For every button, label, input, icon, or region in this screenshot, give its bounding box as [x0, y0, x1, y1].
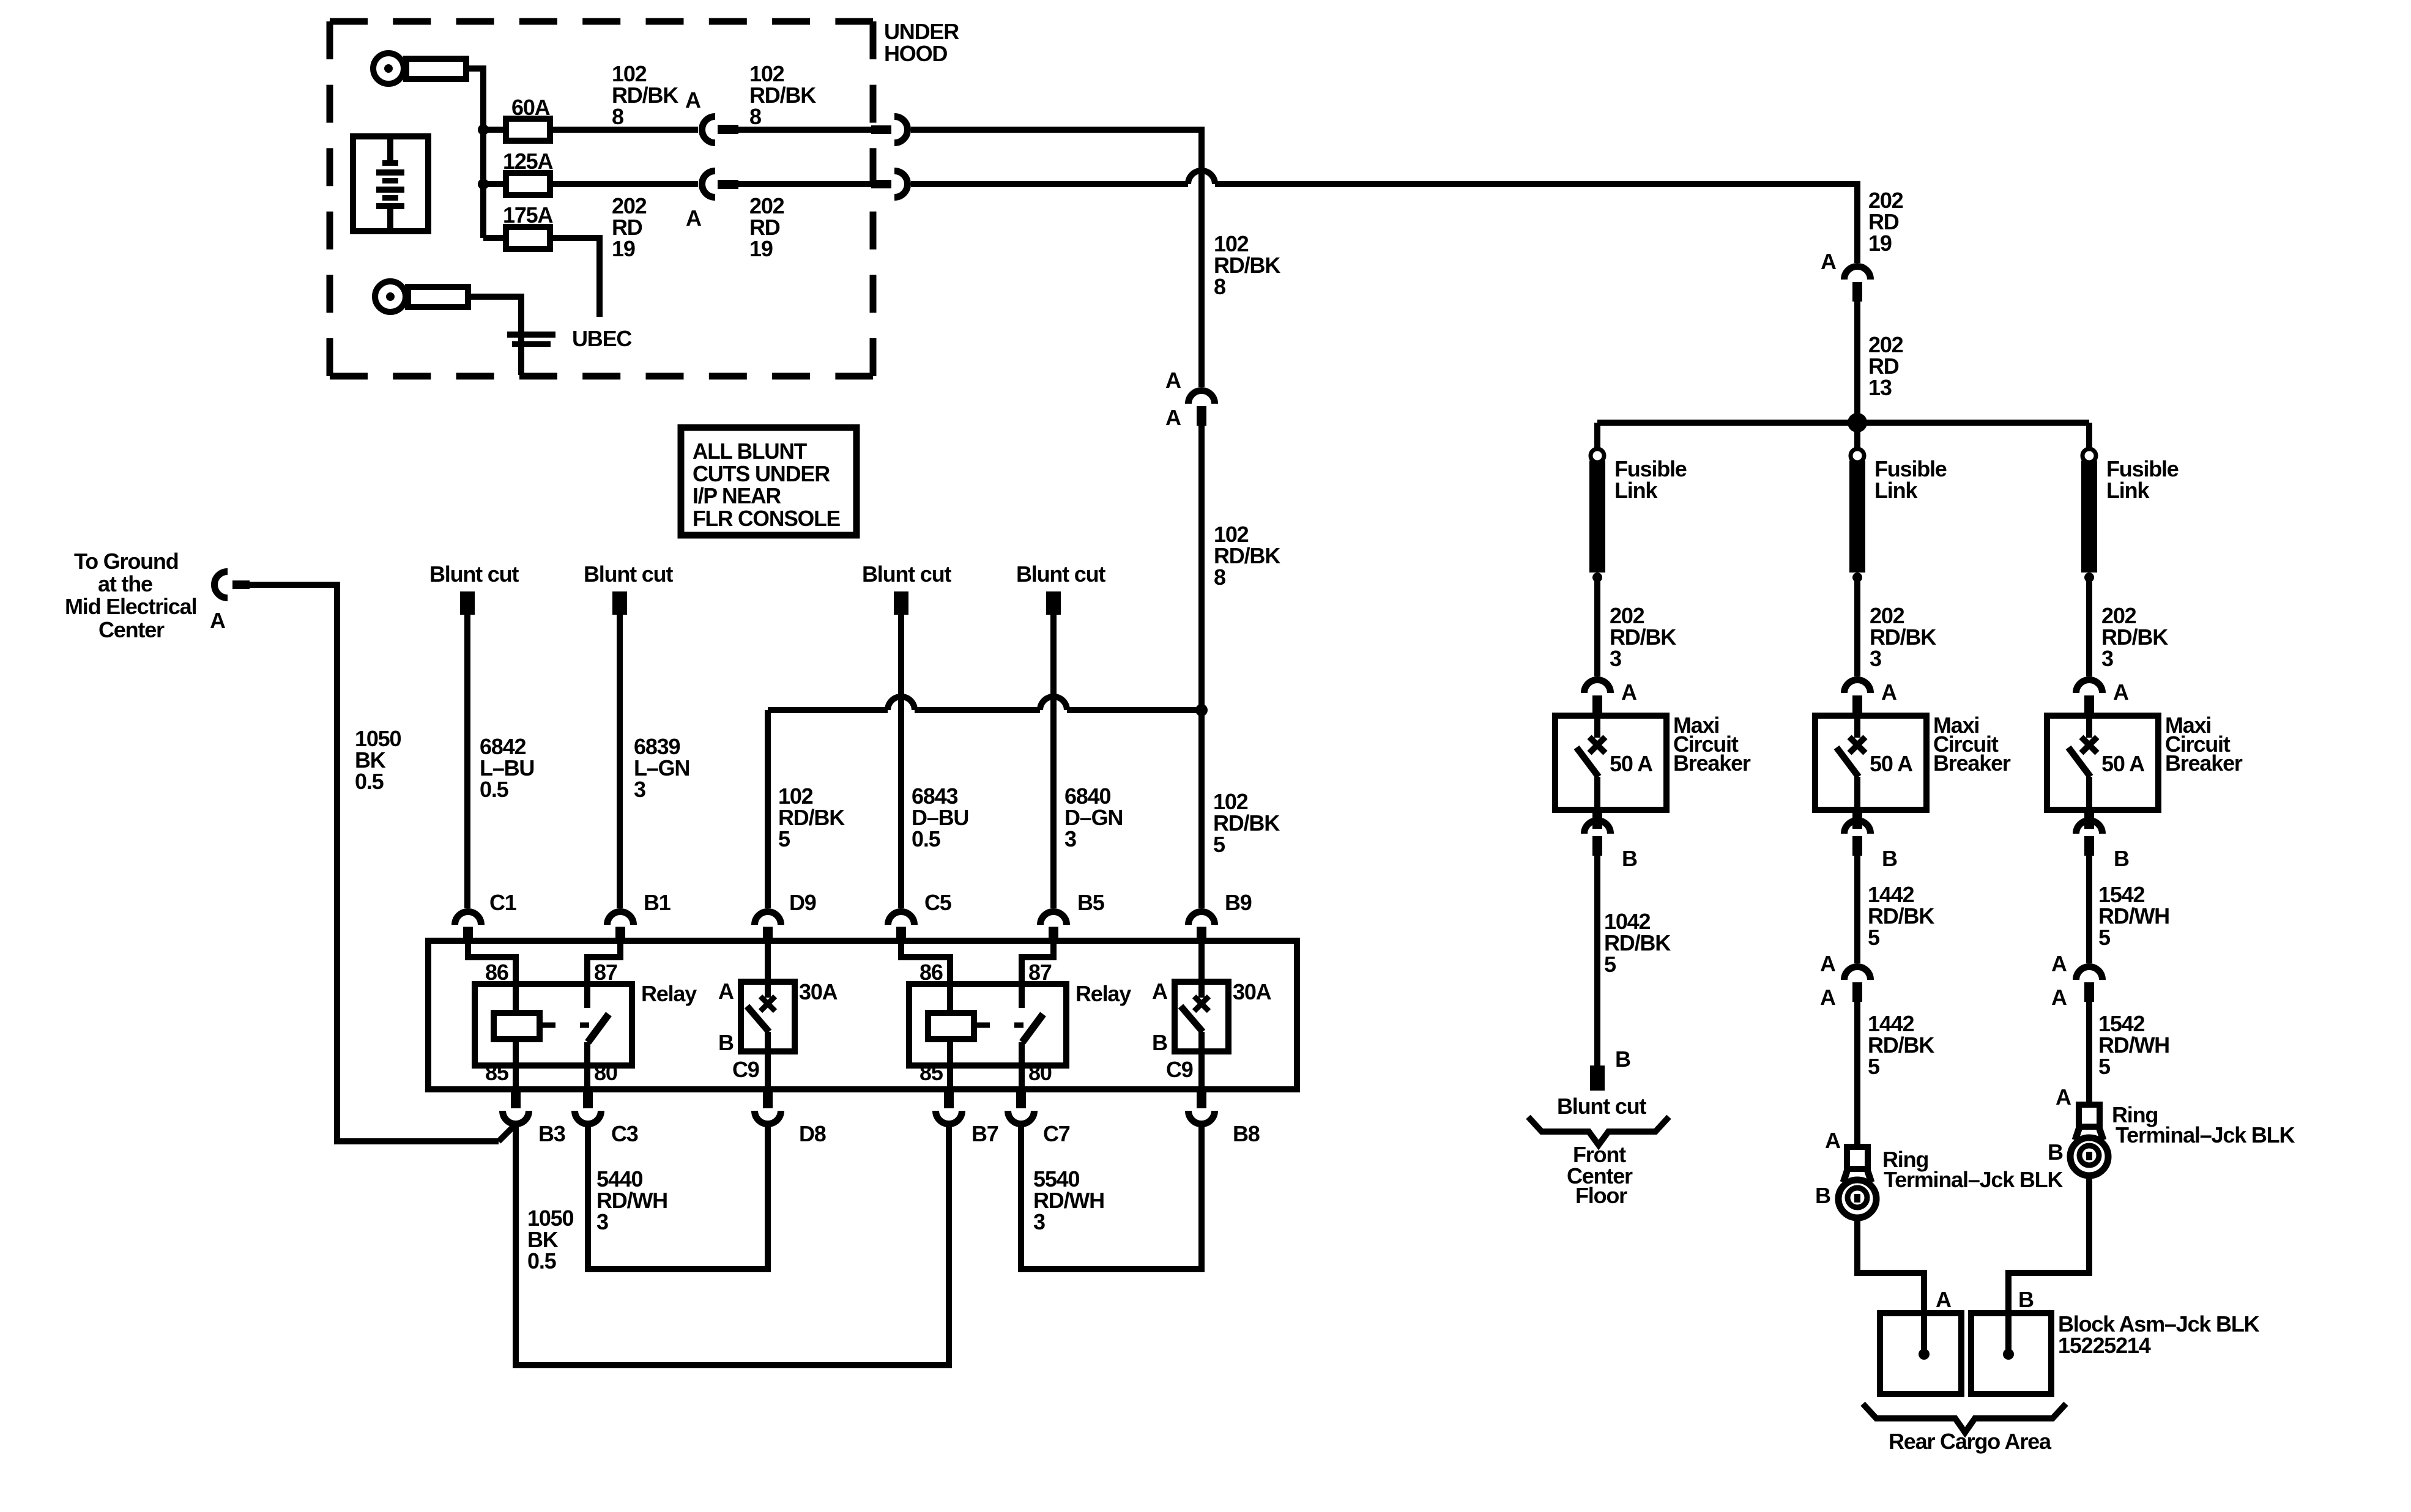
svg-text:50 A: 50 A [1610, 751, 1653, 776]
maxi circuit breaker MCB3 stub [2086, 716, 2092, 738]
wire ground to B3 [250, 585, 499, 1141]
svg-text:87: 87 [594, 960, 617, 985]
connector male pin below breaker 1 B [1592, 836, 1602, 856]
svg-text:Link: Link [1874, 478, 1918, 503]
battery [353, 136, 428, 231]
underhood electrical center dashed box UBEC [330, 18, 873, 25]
note box ALL BLUNT CUTS [681, 428, 856, 535]
connector male pin vertical 102 [1197, 406, 1206, 426]
wire distribution bus [1597, 420, 2089, 426]
connector female B9 [1189, 912, 1215, 925]
maxi circuit breaker MCB2 X symbol [1849, 737, 1865, 753]
svg-text:Rear Cargo Area: Rear Cargo Area [1889, 1429, 2052, 1454]
circuit breaker CB2 30A box [1175, 982, 1228, 1051]
connector female B8 [1189, 1111, 1215, 1124]
svg-text:19: 19 [749, 236, 773, 261]
connector male pin maxi breaker 1 A [1592, 695, 1602, 716]
ring terminal battery negative [375, 281, 406, 312]
wire 1042 RD/BK 5 [1594, 856, 1600, 1065]
svg-text:A: A [1165, 405, 1181, 430]
wire ring terminal negative to ground splice [468, 297, 521, 375]
connector male pin ground [232, 580, 250, 589]
svg-text:A: A [685, 87, 701, 113]
circuit breaker CB1 stub [765, 982, 771, 998]
relay K2 coil wire 86 [901, 941, 950, 1013]
connector male pin maxi breaker 2 A [1852, 695, 1862, 716]
relay K1 coil bottom wire 85 [513, 1039, 519, 1089]
svg-text:8: 8 [1214, 565, 1225, 590]
connector female C7 [1008, 1111, 1035, 1124]
svg-text:3: 3 [1064, 826, 1076, 851]
svg-text:15225214: 15225214 [2058, 1333, 2151, 1358]
svg-text:A: A [1152, 979, 1168, 1004]
connector male pin below breaker 3 B [2084, 836, 2094, 856]
relay K1 switch bottom wire [584, 1042, 590, 1089]
wire ring terminal to block A [1857, 1219, 1924, 1352]
connector male pin wire1 boundary [871, 125, 891, 134]
svg-text:A: A [2051, 985, 2067, 1010]
fuse 125A [506, 173, 550, 195]
connector male pin B7 [944, 1089, 954, 1108]
wire 1442 RD/BK 5 upper [1854, 856, 1860, 963]
svg-text:A: A [2113, 680, 2129, 705]
connector female C5 [888, 912, 915, 925]
svg-text:5: 5 [1868, 925, 1880, 950]
svg-text:Blunt cut: Blunt cut [1016, 561, 1105, 587]
wire 102 RD/BK 8 to junction [1198, 426, 1205, 710]
relay K2 switch wire 87 [1022, 941, 1053, 1008]
connector female vertical 102 [1189, 391, 1215, 404]
svg-text:B: B [1615, 1047, 1630, 1072]
svg-text:86: 86 [485, 960, 508, 985]
svg-text:86: 86 [919, 960, 943, 985]
connector male pin B8 [1197, 1089, 1206, 1108]
relay K1 box [475, 984, 632, 1065]
svg-text:Terminal–Jck BLK: Terminal–Jck BLK [1884, 1167, 2063, 1192]
svg-text:Blunt cut: Blunt cut [1557, 1094, 1646, 1119]
wire 6840 D-GN [1050, 615, 1057, 908]
svg-text:Link: Link [1614, 478, 1658, 503]
relay K2 coil linkage dashes [974, 1023, 990, 1028]
maxi circuit breaker MCB2 bottom wire [1854, 777, 1860, 810]
relay K1 switch wire 87 [587, 941, 620, 1008]
svg-text:3: 3 [1870, 646, 1881, 671]
relay K2 switch lever [1022, 1014, 1043, 1042]
wire bus corner to 175A fuse [483, 235, 506, 241]
relay K2 box [909, 984, 1066, 1065]
svg-text:B8: B8 [1233, 1121, 1260, 1146]
svg-text:A: A [2051, 951, 2067, 976]
wire 202 RD 13 [1854, 302, 1860, 423]
brace front center floor [1528, 1117, 1669, 1145]
maxi circuit breaker MCB3 lever [2068, 747, 2090, 777]
connector male pin maxi breaker 3 B [2084, 810, 2094, 829]
svg-text:B: B [2114, 846, 2129, 871]
fusible link FL3 [2082, 449, 2096, 462]
svg-text:ALL BLUNT: ALL BLUNT [693, 439, 807, 464]
wire wire1 to underhood boundary [738, 127, 871, 133]
fuse 175A [506, 227, 550, 249]
svg-text:Mid Electrical: Mid Electrical [65, 594, 196, 619]
connector male pin maxi breaker 2 B [1852, 810, 1862, 829]
svg-text:3: 3 [1033, 1209, 1045, 1234]
ring terminal battery positive [373, 53, 404, 84]
svg-text:B: B [718, 1030, 734, 1055]
svg-text:B5: B5 [1077, 890, 1105, 915]
svg-text:5: 5 [1213, 832, 1225, 857]
connector female maxi breaker 3 B [2076, 821, 2103, 834]
svg-text:30A: 30A [1233, 979, 1272, 1004]
svg-text:0.5: 0.5 [480, 777, 509, 802]
junction dot node 102 [1195, 704, 1208, 716]
connector male pin B3 [511, 1089, 521, 1108]
junction dot bus [1848, 413, 1867, 432]
connector male pin wire1 inline [718, 125, 738, 134]
junction block A [1880, 1313, 1961, 1394]
wire 5440 RD/WH C3 to D8 [588, 1124, 768, 1269]
svg-text:A: A [1820, 951, 1836, 976]
svg-text:8: 8 [749, 104, 761, 129]
svg-text:C1: C1 [489, 890, 517, 915]
svg-text:D9: D9 [789, 890, 816, 915]
circuit breaker CB2 X symbol [1194, 996, 1209, 1011]
connector female ground [215, 572, 228, 598]
wire ring terminal to fuse bus [466, 69, 483, 238]
svg-text:A: A [1821, 249, 1837, 274]
wire 175A fuse stub to UBEC [550, 238, 600, 317]
svg-text:UNDER: UNDER [884, 19, 959, 44]
wire B9 to breaker CB2 [1198, 941, 1205, 982]
maxi circuit breaker MCB3 X symbol [2081, 737, 2097, 753]
junction dot 60A tap [478, 124, 489, 135]
connector male pin C3 [583, 1089, 593, 1108]
connector male pin B9 [1197, 927, 1206, 941]
connector male pin B5 [1049, 927, 1058, 941]
connector female wire2 boundary [894, 171, 908, 198]
blunt cut terminal front floor [1590, 1065, 1605, 1091]
wire 1050 BK B3 to B7 [516, 1124, 949, 1365]
wire bus to fusible link 1 [1594, 423, 1600, 450]
maxi circuit breaker MCB1 box [1555, 716, 1666, 810]
svg-text:A: A [1820, 985, 1836, 1010]
blunt cut terminal 2 [612, 591, 627, 615]
connector male pin wire2 boundary [871, 180, 891, 188]
connector female maxi breaker 2 B [1844, 821, 1871, 834]
svg-text:8: 8 [1214, 274, 1225, 299]
circuit breaker CB2 stub [1198, 982, 1205, 998]
relay K1 coil [494, 1013, 540, 1039]
connector female maxi breaker 3 A [2076, 680, 2103, 694]
relay module box [428, 941, 1297, 1089]
svg-text:FLR CONSOLE: FLR CONSOLE [693, 506, 840, 531]
connector female 202 vertical [1844, 267, 1871, 280]
svg-text:C9: C9 [732, 1057, 759, 1082]
svg-text:B: B [1622, 846, 1637, 871]
connector male pin wire2 inline [718, 180, 738, 189]
svg-text:C7: C7 [1043, 1121, 1070, 1146]
circuit breaker CB2 bottom wire [1198, 1032, 1205, 1089]
svg-text:80: 80 [594, 1060, 617, 1085]
maxi circuit breaker MCB1 stub [1594, 716, 1600, 738]
svg-text:B: B [2018, 1287, 2034, 1312]
fuse 60A [506, 119, 550, 141]
svg-text:0.5: 0.5 [355, 769, 384, 794]
svg-text:C9: C9 [1166, 1057, 1193, 1082]
wire bus to fusible link 2 [1854, 423, 1860, 450]
svg-text:3: 3 [596, 1209, 608, 1234]
wire junction to B9 [1198, 710, 1205, 908]
svg-text:A: A [210, 608, 226, 633]
connector female C3 [575, 1111, 601, 1124]
svg-text:175A: 175A [503, 202, 553, 228]
relay K1 coil linkage dashes [540, 1023, 555, 1028]
relay K2 switch bottom wire [1019, 1042, 1025, 1089]
svg-text:Floor: Floor [1575, 1183, 1627, 1208]
svg-text:Link: Link [2106, 478, 2150, 503]
svg-text:To Ground: To Ground [74, 549, 178, 574]
connector female wire2 inline [702, 171, 716, 198]
svg-text:8: 8 [612, 104, 623, 129]
svg-text:Breaker: Breaker [1933, 750, 2011, 776]
svg-text:0.5: 0.5 [912, 826, 941, 851]
ring terminal RT2 [1847, 1147, 1868, 1169]
svg-text:A: A [686, 206, 702, 231]
svg-text:30A: 30A [799, 979, 838, 1004]
svg-text:Relay: Relay [1075, 981, 1131, 1006]
junction block B [1971, 1313, 2051, 1394]
wire 1542 RD/WH 5 lower [2086, 1002, 2092, 1105]
connector male pin 202 vertical [1852, 282, 1862, 302]
wire bus to 60A fuse [483, 127, 506, 133]
maxi circuit breaker MCB3 bottom wire [2086, 777, 2092, 810]
svg-text:5: 5 [778, 826, 790, 851]
svg-text:85: 85 [485, 1060, 509, 1085]
connector male pin maxi breaker 1 B [1592, 810, 1602, 829]
svg-text:A: A [1825, 1128, 1841, 1153]
svg-text:85: 85 [919, 1060, 943, 1085]
wire 6839 L-GN [617, 615, 623, 908]
svg-text:50 A: 50 A [2101, 751, 2145, 776]
svg-text:Blunt cut: Blunt cut [429, 561, 519, 587]
svg-text:50 A: 50 A [1870, 751, 1913, 776]
svg-text:UBEC: UBEC [572, 326, 632, 351]
svg-text:A: A [1936, 1287, 1952, 1312]
svg-text:B: B [1815, 1183, 1830, 1208]
svg-text:Breaker: Breaker [2165, 750, 2243, 776]
wire 202 RD main run with crossover [911, 181, 1188, 187]
circuit breaker CB1 30A box [741, 982, 795, 1051]
connector female maxi breaker 1 B [1584, 821, 1611, 834]
wire bus to 125A fuse [483, 181, 506, 187]
wire ring terminal to block B [2008, 1177, 2089, 1352]
maxi circuit breaker MCB1 lever [1577, 747, 1599, 777]
wire node line to D9 with crossovers [768, 707, 888, 713]
maxi circuit breaker MCB2 box [1815, 716, 1926, 810]
svg-text:19: 19 [1868, 231, 1892, 256]
svg-text:A: A [1881, 680, 1897, 705]
svg-text:5: 5 [2098, 1054, 2111, 1079]
svg-text:B7: B7 [971, 1121, 998, 1146]
wire 202 RD/BK 3 branch 3 [2086, 581, 2092, 676]
junction dot 125A tap [478, 179, 489, 190]
svg-text:B3: B3 [538, 1121, 565, 1146]
svg-text:at the: at the [98, 571, 152, 596]
connector female D8 [755, 1111, 781, 1124]
svg-text:125A: 125A [503, 149, 553, 174]
connector female D9 [755, 912, 781, 925]
connector female wire1 inline [702, 117, 716, 143]
connector female B7 [936, 1111, 962, 1124]
svg-text:B: B [1882, 846, 1897, 871]
svg-text:HOOD: HOOD [884, 41, 947, 66]
connector female maxi breaker 2 A [1844, 680, 1871, 694]
wire 1542 RD/WH 5 upper [2086, 856, 2092, 963]
circuit breaker CB2 lever [1181, 1006, 1203, 1032]
svg-text:5: 5 [1868, 1054, 1880, 1079]
maxi circuit breaker MCB1 X symbol [1589, 737, 1605, 753]
svg-text:Terminal–Jck BLK: Terminal–Jck BLK [2116, 1122, 2295, 1147]
wire 60A fuse to inline connector [550, 127, 698, 133]
svg-text:0.5: 0.5 [527, 1248, 557, 1273]
wire 202 RD/BK 3 branch 2 [1854, 581, 1860, 676]
fusible link FL2 [1851, 449, 1864, 462]
svg-text:3: 3 [2101, 646, 2113, 671]
maxi circuit breaker MCB2 stub [1854, 716, 1860, 738]
relay K1 switch lever [588, 1014, 609, 1042]
connector female branch2 [1844, 967, 1871, 980]
ground splice bars [507, 332, 555, 338]
svg-text:A: A [1165, 368, 1181, 393]
svg-text:Center: Center [98, 617, 165, 642]
wire D9 to breaker CB1 [765, 941, 771, 982]
connector female branch3 [2076, 967, 2103, 980]
svg-text:5: 5 [1604, 952, 1616, 977]
connector male pin below breaker 2 B [1852, 836, 1862, 856]
svg-text:A: A [1621, 680, 1637, 705]
connector male pin C5 [896, 927, 906, 941]
wire 102 RD/BK 8 main run [911, 130, 1202, 387]
circuit breaker CB1 lever [747, 1006, 769, 1032]
wire 5540 RD/WH C7 to B8 [1021, 1124, 1202, 1269]
connector male pin maxi breaker 3 A [2084, 695, 2094, 716]
svg-text:Relay: Relay [641, 981, 697, 1006]
svg-text:CUTS UNDER: CUTS UNDER [693, 461, 830, 486]
connector female maxi breaker 1 A [1584, 680, 1611, 694]
wire 6842 L-BU [464, 615, 470, 908]
relay K2 coil bottom wire 85 [947, 1039, 953, 1089]
connector female wire1 boundary [894, 117, 908, 143]
svg-text:B9: B9 [1225, 890, 1252, 915]
svg-text:3: 3 [634, 777, 645, 802]
blunt cut terminal 3 [894, 591, 908, 615]
maxi circuit breaker MCB1 bottom wire [1594, 777, 1600, 810]
connector male pin D9 [763, 927, 773, 941]
svg-text:60A: 60A [511, 95, 551, 120]
svg-text:Blunt cut: Blunt cut [862, 561, 951, 587]
wire 202 RD/BK 3 branch 1 [1594, 581, 1600, 676]
wire wire2 to underhood boundary [738, 181, 871, 187]
svg-text:B1: B1 [644, 890, 671, 915]
circuit breaker CB1 X symbol [760, 996, 775, 1011]
circuit breaker CB1 bottom wire [765, 1032, 771, 1089]
connector female B1 [607, 912, 634, 925]
maxi circuit breaker MCB2 lever [1837, 747, 1859, 777]
svg-text:I/P NEAR: I/P NEAR [693, 483, 781, 508]
maxi circuit breaker MCB3 box [2047, 716, 2158, 810]
relay K1 coil wire 86 [468, 941, 516, 1013]
connector female C1 [455, 912, 481, 925]
svg-text:C5: C5 [924, 890, 952, 915]
connector female B3 [503, 1111, 529, 1124]
svg-text:5: 5 [2098, 925, 2111, 950]
wire 6843 D-BU [898, 615, 904, 908]
svg-text:19: 19 [612, 236, 635, 261]
fusible link FL1 [1591, 449, 1604, 462]
blunt cut terminal 1 [460, 591, 475, 615]
svg-text:A: A [2056, 1084, 2071, 1110]
relay K2 coil [928, 1013, 974, 1039]
svg-text:B: B [1152, 1030, 1167, 1055]
svg-text:Blunt cut: Blunt cut [584, 561, 673, 587]
blunt cut terminal 4 [1046, 591, 1061, 615]
connector male pin C7 [1016, 1089, 1026, 1108]
svg-text:3: 3 [1610, 646, 1621, 671]
svg-text:D8: D8 [799, 1121, 826, 1146]
wire 125A fuse to inline connector [550, 181, 698, 187]
connector male pin branch3 [2084, 982, 2094, 1002]
svg-text:Breaker: Breaker [1673, 750, 1751, 776]
brace rear cargo area [1863, 1404, 2066, 1432]
connector female B5 [1041, 912, 1067, 925]
svg-text:B: B [2048, 1140, 2063, 1165]
wire 1442 RD/BK 5 lower [1854, 1002, 1860, 1147]
connector male pin B1 [615, 927, 625, 941]
connector male pin branch2 [1852, 982, 1862, 1002]
ring terminal RT3 [2079, 1105, 2100, 1127]
svg-text:13: 13 [1868, 375, 1892, 400]
svg-text:80: 80 [1028, 1060, 1052, 1085]
connector male pin C1 [463, 927, 473, 941]
svg-text:87: 87 [1028, 960, 1052, 985]
svg-text:C3: C3 [611, 1121, 638, 1146]
wire bus to fusible link 3 [2086, 423, 2092, 450]
connector male pin D8 [763, 1089, 773, 1108]
svg-text:A: A [718, 979, 734, 1004]
